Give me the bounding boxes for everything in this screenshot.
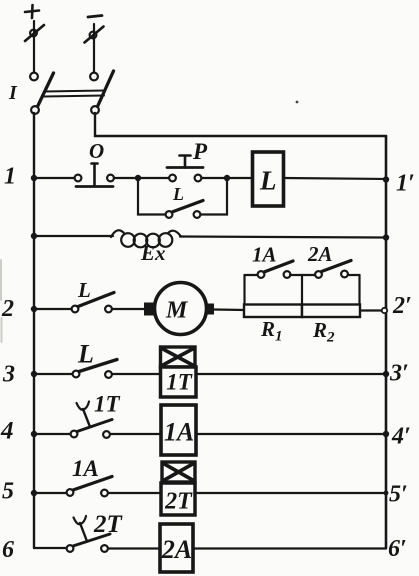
- wire row3 b: [112, 373, 161, 375]
- relay 2T time element box: [162, 462, 195, 482]
- svg-text:2T: 2T: [93, 511, 124, 538]
- wire row1 b: [114, 177, 138, 179]
- motor M armature: [144, 283, 214, 335]
- right bus wire: [385, 136, 388, 548]
- contact 1A (NO): [67, 477, 112, 497]
- wire Ex a: [34, 235, 113, 237]
- wire row1 d: [202, 177, 228, 179]
- wire row6 c: [193, 547, 386, 549]
- junction node 3: [31, 371, 37, 377]
- relay 1T time element box: [161, 347, 196, 367]
- wire row1 e: [227, 177, 252, 179]
- left bus wire: [33, 113, 35, 548]
- svg-text:2A: 2A: [161, 535, 192, 564]
- svg-text:2′: 2′: [392, 293, 412, 319]
- svg-text:1′: 1′: [396, 171, 415, 197]
- svg-text:L: L: [172, 184, 184, 204]
- svg-text:1A: 1A: [164, 418, 194, 447]
- junction node 2: [31, 306, 37, 312]
- pushbutton O (stop, NC): [75, 164, 114, 187]
- wire row2 b: [112, 308, 148, 310]
- svg-text:4: 4: [0, 418, 14, 445]
- contact 1T (time delay closing): [71, 402, 112, 438]
- scan smudge left edge: [0, 260, 3, 342]
- wire shorting frame verticals: [245, 275, 360, 305]
- wire row2 d: [360, 309, 386, 311]
- clip link on negative lead: [85, 27, 104, 43]
- wire row6 b: [108, 547, 160, 549]
- relay coil 2A: [160, 524, 193, 572]
- relay 2T time element cross: [164, 464, 194, 481]
- svg-text:1A: 1A: [252, 243, 277, 267]
- wire row4 c: [196, 433, 386, 435]
- svg-text:L: L: [77, 340, 94, 369]
- wire seal-in branch right: [201, 178, 228, 215]
- junction row1 branch right: [224, 175, 230, 181]
- wire row1 a: [34, 177, 75, 179]
- junction node 3': [383, 371, 389, 377]
- svg-text:1A: 1A: [72, 456, 99, 481]
- svg-text:L: L: [77, 278, 91, 302]
- wire row2 c: [214, 308, 245, 311]
- svg-text:L: L: [259, 166, 277, 196]
- svg-text:1T: 1T: [166, 370, 193, 395]
- svg-text:1: 1: [4, 164, 16, 190]
- relay coil 2T: [161, 483, 195, 515]
- relay coil 1A: [161, 405, 196, 455]
- svg-text:2T: 2T: [164, 489, 193, 515]
- svg-text:1T: 1T: [94, 392, 121, 417]
- junction node 2': [382, 308, 387, 313]
- svg-text:2: 2: [1, 296, 14, 322]
- contact L row3 (NO): [73, 360, 117, 378]
- resistor R1 box: [244, 305, 302, 318]
- knife switch I (two pole): [30, 71, 113, 114]
- inductor Ex (exciter winding): [111, 230, 181, 247]
- svg-text:O: O: [89, 139, 104, 163]
- clip link on positive lead: [25, 25, 44, 41]
- wire negative pole drop: [95, 113, 386, 136]
- wire row4 b: [110, 433, 161, 435]
- wire row5 b: [108, 492, 161, 494]
- svg-text:5′: 5′: [389, 482, 408, 508]
- svg-text:Ex: Ex: [140, 241, 166, 265]
- pushbutton P (start, NO): [167, 156, 203, 182]
- svg-text:P: P: [192, 139, 208, 164]
- wire row3 a: [34, 373, 73, 375]
- svg-text:M: M: [165, 298, 189, 324]
- coil L (line contactor): [253, 152, 284, 206]
- contact L seal-in (NO): [166, 201, 203, 218]
- wire row5 a: [34, 492, 67, 494]
- svg-text:3′: 3′: [389, 361, 409, 387]
- svg-text:6′: 6′: [388, 536, 407, 562]
- contact 2A (shorts R2): [315, 261, 351, 278]
- svg-text:6: 6: [2, 537, 14, 563]
- svg-text:3: 3: [2, 362, 15, 388]
- contact 2T (time delay closing): [67, 516, 110, 552]
- svg-text:I: I: [8, 82, 18, 104]
- wire shorting rail segments: [245, 274, 360, 276]
- contact L row2 (NO): [72, 293, 114, 313]
- junction node 4': [383, 431, 389, 437]
- junction node 5: [31, 490, 37, 496]
- junction node 5': [384, 491, 389, 496]
- wire row6 a: [34, 547, 67, 549]
- junction node 1: [31, 175, 37, 181]
- label + (positive supply): [25, 5, 39, 18]
- relay coil 1T: [161, 367, 197, 397]
- wire row3 c: [196, 373, 386, 375]
- wire row1 f: [284, 178, 386, 179]
- contact 1A (shorts R1): [258, 261, 293, 278]
- wire Ex b: [180, 237, 386, 238]
- label - (negative supply): [88, 16, 102, 18]
- wire negative lead: [93, 24, 95, 72]
- wire positive lead: [33, 21, 35, 72]
- wire row1 c: [138, 177, 169, 179]
- wire seal-in branch left: [138, 178, 166, 215]
- wire row5 c: [195, 492, 386, 494]
- svg-text:4′: 4′: [391, 424, 411, 450]
- speck artifact: [296, 101, 299, 104]
- wire row2 a: [34, 308, 72, 310]
- relay 1T time element cross: [162, 349, 194, 366]
- junction node Ex right: [383, 234, 389, 240]
- svg-text:2A: 2A: [307, 242, 333, 266]
- wire row4 a: [34, 433, 71, 435]
- junction node 4: [31, 431, 37, 437]
- svg-text:5: 5: [2, 479, 14, 505]
- junction row1 branch left: [135, 175, 141, 181]
- junction node Ex left: [31, 233, 37, 239]
- resistor R2 box: [302, 305, 360, 318]
- junction node 1': [383, 176, 389, 182]
